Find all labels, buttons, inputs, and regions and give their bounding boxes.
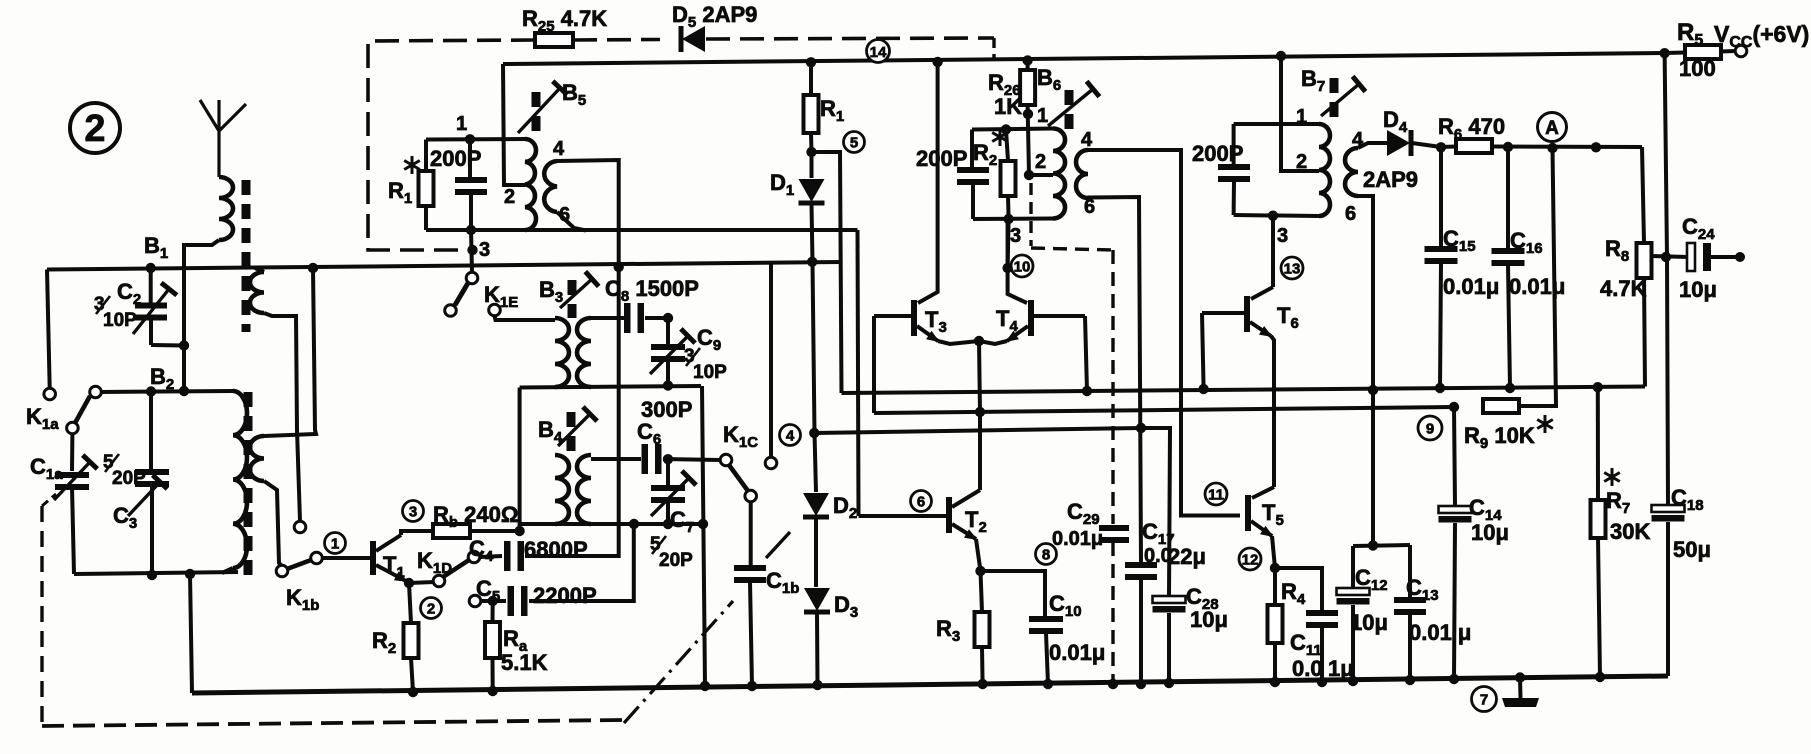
junction [698, 519, 708, 529]
svg-text:2: 2 [1296, 151, 1307, 173]
ground-side horizontal wire below B2 [74, 572, 238, 574]
pin label 1 [1037, 105, 1048, 127]
diode D5 2AP9 [681, 26, 705, 52]
pin label 6 [559, 204, 570, 226]
svg-text:0.01μ: 0.01μ [1049, 640, 1105, 665]
capacitor C12 10u electrolytic [1353, 545, 1410, 546]
svg-text:6: 6 [559, 204, 570, 226]
tuning arrow B4 [558, 407, 597, 446]
shield dashes around B6 [1029, 183, 1032, 246]
wire B6 pin6 down through C17 [1088, 197, 1141, 562]
figure number 2 (circled) [70, 103, 120, 153]
pin label 3 [1010, 225, 1021, 247]
label 300P [641, 397, 692, 422]
wire B2 primary top [101, 391, 233, 392]
capacitor 200P (B6) [970, 130, 974, 169]
svg-text:20P: 20P [659, 550, 693, 571]
resistor Ra 5.1K [491, 601, 495, 622]
resistor R25 4.7K on AGC line [535, 33, 573, 47]
svg-text:3: 3 [479, 239, 490, 261]
node 4 (circled) [780, 425, 801, 446]
node 3 (circled) [403, 501, 424, 522]
tank B7 bottom wire [1234, 215, 1319, 216]
junction bottom rail [1348, 676, 1358, 686]
junction pin3 [466, 225, 476, 235]
wire left vertical to Rb node [518, 388, 522, 532]
label R6 470 [1438, 114, 1505, 143]
svg-text:30K: 30K [1610, 519, 1650, 544]
wire down to bottom rail [190, 574, 192, 693]
label 0.01u for C11 [1292, 656, 1354, 681]
label 0.01u for C13 [1409, 620, 1471, 645]
wire T2 collector up [978, 412, 982, 490]
label R4 [1281, 579, 1306, 608]
label 2200P [533, 583, 597, 608]
svg-text:7: 7 [1480, 691, 1488, 708]
junction AGC bus [1368, 385, 1378, 395]
wire B3 bottom horizontal [520, 386, 701, 388]
switch K1b [276, 552, 322, 577]
wire B5 pin6 [557, 212, 586, 231]
svg-text:C8 1500P: C8 1500P [605, 276, 699, 305]
svg-text:10μ: 10μ [1190, 607, 1228, 632]
tuning arrow B7 [1321, 76, 1365, 116]
label K1b [286, 585, 319, 614]
label C28 [1186, 584, 1219, 613]
svg-text:1: 1 [331, 535, 339, 552]
junction on shield dashed line [467, 245, 477, 255]
label C15 [1443, 226, 1476, 255]
svg-text:10P: 10P [693, 362, 727, 383]
resistor R3 [981, 571, 983, 612]
open terminal Vcc [1735, 45, 1747, 57]
diode D1 [810, 152, 814, 178]
pin label 4 [553, 138, 565, 160]
oscillator tank B5 bottom wire [426, 228, 858, 232]
variable capacitor C2 [146, 263, 156, 273]
label D1 [770, 170, 794, 199]
label 0.01u for C15 [1443, 274, 1499, 299]
tank B7 top wire [1234, 122, 1319, 126]
resistor R1* (osc) [424, 140, 428, 172]
svg-text:2AP9: 2AP9 [1363, 167, 1418, 192]
wire B1 primary bottom to B2 primary top [184, 240, 219, 388]
label 0.01u for C16 [1509, 274, 1565, 299]
node 6 (circled) [911, 491, 932, 512]
wire B4 bottom horizontal [520, 522, 703, 526]
label R25 4.7K [522, 6, 607, 35]
node 14 (circled) [867, 40, 890, 63]
wire node10 to tank [1008, 219, 1009, 268]
svg-text:1: 1 [1296, 106, 1307, 128]
core B7 [1330, 78, 1339, 122]
bottom ground rail [192, 676, 1668, 693]
oscillator shield dashed box [368, 40, 535, 250]
junction bottom rail [977, 679, 987, 689]
wire B5 pin3 to K1E [471, 230, 472, 272]
svg-text:10μ: 10μ [1679, 277, 1717, 302]
left dashed gang link vertical [40, 506, 43, 726]
capacitor C13 [1408, 545, 1412, 598]
label 4.7K [1600, 276, 1647, 301]
node 7 (circled) [1472, 687, 1497, 712]
resistor R4 [1273, 568, 1277, 605]
pin label 4 [1352, 129, 1364, 151]
label 200P [1192, 141, 1243, 166]
label 6800P [524, 537, 588, 562]
wire to T2 base [859, 514, 947, 518]
pin label 6 [1345, 203, 1356, 225]
variable capacitor C7 [651, 459, 696, 524]
bottom dashed shield line [42, 720, 622, 726]
coil B7 secondary [1345, 148, 1358, 196]
junction [185, 569, 195, 579]
svg-text:10μ: 10μ [1471, 520, 1509, 545]
transformer B2 primary coil [233, 391, 247, 568]
label C5 [476, 576, 500, 605]
tuning arrow B3 [560, 272, 599, 308]
label 2AP9 [1363, 167, 1418, 192]
svg-text:4: 4 [553, 138, 565, 160]
capacitor C8 1500P [591, 316, 624, 320]
transistor T6 [1271, 216, 1275, 287]
junction [147, 570, 157, 580]
junction bottom rail [1108, 679, 1118, 689]
junction pin 3 [1003, 214, 1013, 224]
label T5 [1262, 500, 1284, 529]
svg-text:9: 9 [1426, 420, 1434, 437]
wire B2 primary bottom [222, 568, 233, 573]
svg-text:10P: 10P [103, 310, 137, 331]
label R8 [1605, 236, 1629, 265]
diode D4 2AP9 [1358, 143, 1387, 148]
variable capacitor C1b [749, 502, 753, 566]
svg-text:3: 3 [1010, 225, 1021, 247]
svg-text:0.01 μ: 0.01 μ [1409, 620, 1471, 645]
open terminal node 4 [765, 457, 777, 469]
label C12 [1355, 565, 1388, 594]
label B6 [1037, 65, 1061, 94]
svg-text:10μ: 10μ [1350, 610, 1388, 635]
junction bottom rail [1317, 677, 1327, 687]
transistor T2 [946, 497, 952, 533]
label C13 [1406, 575, 1439, 604]
svg-text:2200P: 2200P [533, 583, 597, 608]
svg-text:R6 470: R6 470 [1438, 114, 1505, 143]
capacitor C17 [1125, 562, 1157, 580]
label 5/20P for C1a-C3 [103, 452, 146, 489]
variable capacitor C3 [128, 391, 169, 575]
transistor T4 [1008, 220, 1027, 303]
node 12 (circled) [1239, 548, 1261, 570]
open terminal below B1 secondary [294, 521, 306, 533]
wire B6 pin4 to T5 base [1088, 150, 1240, 516]
capacitor 200P (B7) [1232, 124, 1236, 165]
junction top rail [806, 57, 816, 67]
label 200P [916, 146, 967, 171]
label T2 [965, 507, 987, 536]
core B6 [1065, 90, 1074, 132]
svg-text:200P: 200P [1192, 141, 1243, 166]
junction bottom rail [1164, 678, 1174, 688]
label B5 [562, 80, 586, 109]
svg-text:14: 14 [870, 44, 887, 61]
capacitor C16 [1506, 147, 1510, 249]
wire D2 to D3 [814, 518, 818, 587]
resistor R6 470 [1436, 142, 1446, 152]
label C14 [1469, 495, 1502, 524]
label B7 [1301, 66, 1325, 95]
coil B4 left winding [555, 455, 569, 524]
transformer B2 core [244, 392, 253, 578]
label D4 [1383, 107, 1408, 136]
wire C4 to B5 pin4 vertical [525, 267, 619, 556]
wire T3 emitter to common [938, 341, 979, 344]
label C3 [113, 503, 137, 532]
junction AGC bus [1435, 383, 1445, 393]
svg-text:6: 6 [1345, 203, 1356, 225]
label 3/10P for C9 [684, 346, 727, 383]
wire K1b to T1 base [322, 556, 370, 560]
svg-text:0.0: 0.0 [1292, 656, 1323, 681]
svg-text:12: 12 [1242, 551, 1259, 568]
junction bottom rail [747, 681, 757, 691]
svg-text:1: 1 [1037, 105, 1048, 127]
pin label 2 [504, 186, 515, 208]
label R3 [936, 616, 960, 645]
svg-text:0.01μ: 0.01μ [1443, 274, 1499, 299]
transformer B1 secondary coil [250, 272, 264, 313]
svg-text:0.01μ: 0.01μ [1052, 528, 1103, 550]
label C7 [670, 507, 694, 536]
junction [179, 340, 189, 350]
wire T5 emitter down [1272, 536, 1275, 568]
wire [255, 268, 264, 272]
svg-text:4.7K: 4.7K [1600, 276, 1647, 301]
pin label 4 [1081, 129, 1093, 151]
wire T2 emitter down [976, 539, 981, 571]
label R2 [372, 628, 396, 657]
transistor T1 [370, 541, 376, 575]
junction AGC bus [1593, 382, 1603, 392]
capacitor C10 [981, 571, 1046, 617]
svg-text:R25 4.7K: R25 4.7K [522, 6, 607, 35]
wire B7 pin6 down to C12 [1358, 196, 1373, 545]
label T1 [383, 552, 405, 581]
junction bottom rail [1405, 675, 1415, 685]
svg-text:200P: 200P [916, 146, 967, 171]
transformer B1 core [242, 180, 251, 332]
label Rb 240 [433, 502, 519, 531]
junction bottom rail [1595, 672, 1605, 682]
pin label 2 [1296, 151, 1307, 173]
tank B6 bottom wire [973, 217, 1053, 222]
junction bus [1449, 402, 1459, 412]
svg-text:1K: 1K [994, 94, 1022, 119]
label K1D [417, 548, 452, 577]
wire osc injection down to T2 base [858, 230, 859, 516]
capacitor C6 300P [591, 457, 641, 461]
junction pin 3 [1268, 211, 1278, 221]
main RF node wire (top-left horizontal) [47, 262, 841, 270]
capacitor C4 6800P [480, 556, 502, 557]
svg-text:22μ: 22μ [1168, 544, 1206, 569]
junction [1136, 423, 1146, 433]
svg-text:100: 100 [1679, 56, 1716, 81]
junction top rail [1659, 48, 1669, 58]
wire C5 to B4 bottom line [529, 524, 634, 601]
label C1b [766, 568, 799, 597]
junction [1515, 672, 1525, 682]
svg-text:2: 2 [504, 186, 515, 208]
antenna [200, 100, 246, 177]
wire C6-C7 branch down to ground rail [702, 386, 705, 686]
svg-text:200P: 200P [430, 146, 481, 171]
core B3 [568, 280, 577, 318]
label 10u for C28 [1190, 607, 1228, 632]
label R5 [1677, 19, 1703, 49]
label Ra [503, 626, 528, 655]
junction top rail [932, 57, 942, 67]
tuning arrow B6 [1048, 81, 1099, 126]
switch K1C [720, 454, 756, 502]
node 11 (circled) [1205, 483, 1227, 505]
junction on bus [975, 407, 985, 417]
node 8 (circled) [1036, 544, 1057, 565]
coil B6 secondary [1076, 150, 1088, 198]
capacitor C5 2200P [469, 595, 481, 607]
label B3 [539, 277, 563, 306]
capacitor C28 10u electrolytic [1141, 428, 1170, 596]
coil B6 primary [1053, 129, 1065, 219]
svg-text:10: 10 [1014, 258, 1031, 275]
label C18 [1671, 485, 1704, 514]
label 100 [1679, 56, 1716, 81]
svg-text:50μ: 50μ [1673, 537, 1711, 562]
wire B5 pin4 down [557, 160, 619, 267]
label K1C [723, 422, 758, 451]
label C17 [1142, 519, 1175, 548]
transistor T5 [1252, 487, 1274, 498]
pin label 3 [479, 239, 490, 261]
label K1E [484, 282, 518, 311]
wire C2 bottom to B1 vertical [151, 343, 184, 348]
tank B6 top wire [972, 129, 1053, 130]
label 10u for C24 [1679, 277, 1717, 302]
junction bottom rail [812, 680, 822, 690]
wire diode chain down [813, 262, 817, 492]
node 4 terminal wire [769, 264, 773, 457]
svg-text:VCC(+6V): VCC(+6V) [1714, 21, 1809, 51]
svg-text:4: 4 [786, 427, 795, 444]
junction common emitters [974, 336, 984, 346]
wire B2 secondary bottom to K1b [264, 481, 282, 566]
label D2 [833, 493, 857, 522]
label Vcc +6V [1714, 21, 1809, 51]
label C6 [637, 419, 661, 448]
coil B5 primary [525, 139, 536, 230]
pin label 1 [456, 113, 467, 135]
svg-text:5.1K: 5.1K [501, 650, 548, 675]
node 5 (circled) [844, 132, 865, 153]
junction [1198, 384, 1208, 394]
svg-text:R9 10K: R9 10K [1464, 423, 1535, 452]
transformer B1 primary coil [219, 177, 233, 240]
junction R2* [1001, 124, 1011, 134]
node 9 (circled) [1418, 416, 1442, 440]
output stub [1735, 252, 1745, 262]
supply vertical wire down to C18 [1665, 53, 1668, 505]
oscillator tank B5: top wire [426, 137, 525, 142]
label C1a [30, 454, 63, 483]
label C10 [1049, 591, 1082, 620]
coil B3 left winding [495, 316, 556, 320]
junction bottom rail [1043, 679, 1053, 689]
label R1 [820, 96, 844, 125]
label D3 [834, 592, 858, 621]
variable capacitor C1a [70, 434, 74, 471]
svg-text:4: 4 [1081, 129, 1093, 151]
junction bottom rail [1136, 679, 1146, 689]
junction on bottom rail [488, 686, 498, 696]
svg-text:3: 3 [409, 503, 417, 520]
switch K1a [44, 386, 101, 434]
label C24 [1682, 214, 1715, 243]
svg-text:1: 1 [456, 113, 467, 135]
capacitor C18 50u electrolytic [1652, 505, 1685, 522]
junction pin1 [465, 134, 475, 144]
wire T6 emitter to T5 collector [1271, 336, 1274, 487]
wire B1 secondary bottom down to open tap [264, 313, 300, 521]
label C8 1500P [605, 276, 699, 305]
coil B3 right winding [577, 318, 591, 387]
label K1a [26, 404, 59, 433]
node 13 (circled) [1281, 257, 1303, 279]
label C16 [1510, 228, 1543, 257]
wire left end down to K1a [47, 270, 50, 389]
label C9 [697, 325, 721, 354]
label B2 [150, 364, 174, 393]
capacitor C11 [1275, 568, 1322, 611]
junction bottom rail [700, 681, 710, 691]
capacitor C29 on shield line [1099, 525, 1129, 543]
svg-text:11: 11 [1208, 486, 1224, 503]
label 30K [1610, 519, 1650, 544]
junction [1368, 540, 1378, 550]
svg-text:5: 5 [850, 134, 858, 151]
resistor Rb 240ohm [401, 531, 433, 535]
resistor R9 10K* [1483, 399, 1519, 413]
label 50u [1673, 537, 1711, 562]
label R7 star [1604, 468, 1630, 517]
svg-text:A: A [1545, 118, 1559, 139]
svg-text:D5 2AP9: D5 2AP9 [672, 2, 757, 31]
wire rail down to B5 tap 2 [503, 64, 525, 185]
label D5 2AP9 [672, 2, 757, 31]
node 2 (circled) [421, 598, 442, 619]
ganged-capacitor link dash-dot diagonal [624, 601, 733, 723]
bus wire node 4 line [814, 428, 1141, 433]
junction top rail [1022, 55, 1032, 65]
pin label 1 [1296, 106, 1307, 128]
resistor R2* with star [1006, 130, 1008, 162]
junction [308, 263, 318, 273]
bus wire T3 base to C14/R9 [874, 407, 1454, 413]
diode D3 [804, 588, 830, 612]
transformer B2 secondary coil [250, 436, 264, 481]
resistor R8 4.7K [1642, 147, 1644, 243]
top supply rail [503, 53, 1665, 64]
